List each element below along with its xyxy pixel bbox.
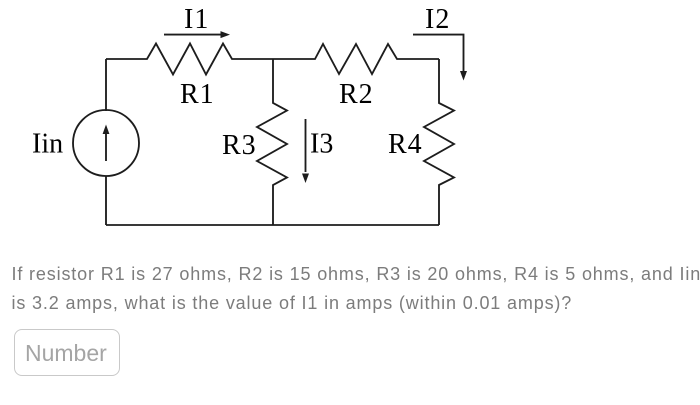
svg-text:R2: R2 [339,79,374,110]
svg-text:I2: I2 [425,4,450,35]
svg-text:R1: R1 [180,79,215,110]
svg-text:R4: R4 [388,129,423,160]
svg-text:Iin: Iin [32,129,63,160]
svg-text:I1: I1 [184,4,209,35]
svg-text:R3: R3 [222,130,257,161]
svg-text:I3: I3 [310,129,333,160]
